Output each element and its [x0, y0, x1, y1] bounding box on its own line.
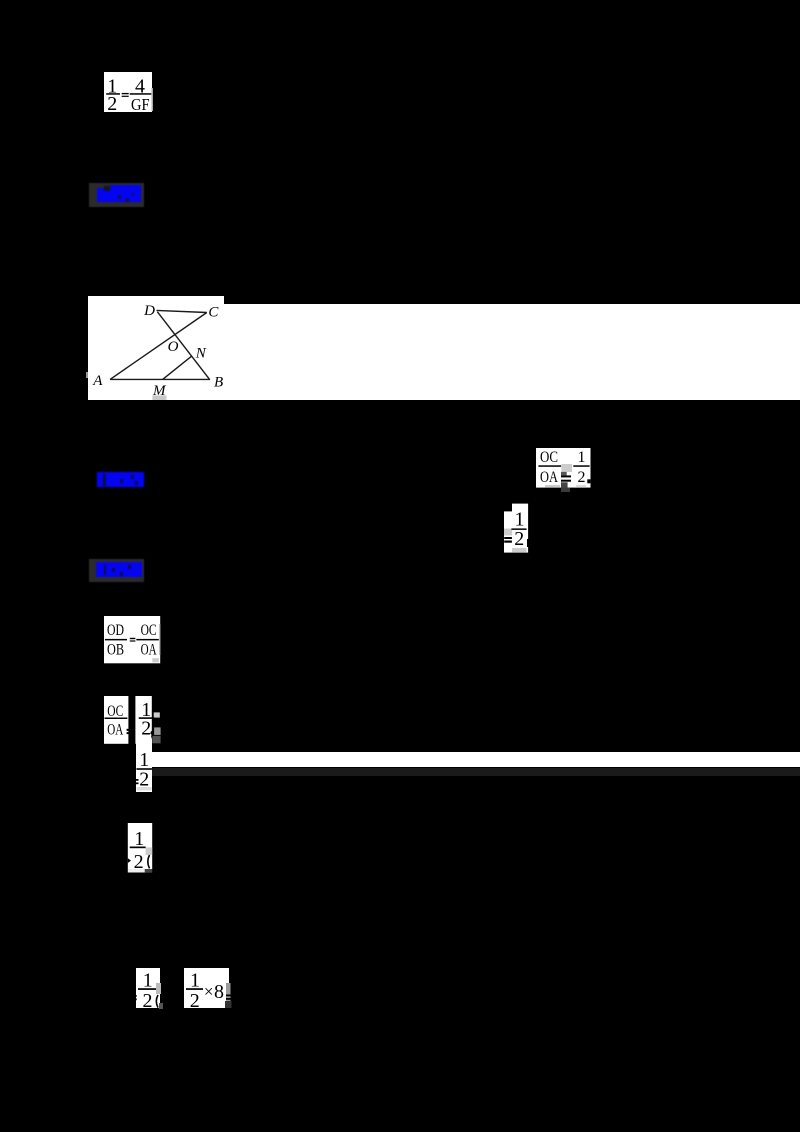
line DC: [156, 310, 206, 312]
svg-text:2: 2: [107, 93, 117, 112]
formula F5: OC/OA = 1/2,: [104, 696, 162, 744]
gray smudge under M: [152, 395, 166, 400]
formula F4: OD/OB = OC/OA: [104, 616, 161, 664]
formula F2: OC/OA = 1/2: [536, 448, 591, 492]
svg-text:2: 2: [143, 990, 153, 1010]
svg-text:N: N: [194, 345, 206, 361]
svg-text:OD: OD: [107, 622, 124, 639]
line MN: [162, 356, 191, 380]
svg-text:O: O: [167, 339, 178, 355]
svg-text:C: C: [208, 304, 219, 320]
white band to the right of figure: [224, 304, 800, 400]
svg-text:OC: OC: [540, 449, 558, 466]
svg-text:A: A: [92, 373, 103, 389]
formula F3: = 1/2: [504, 503, 532, 553]
label L3 (blue highlighted): [89, 559, 144, 582]
svg-text:2: 2: [578, 469, 586, 486]
geometry figure drawing: [88, 296, 225, 401]
formula F9: 1/2 x 8 =: [184, 966, 233, 1009]
svg-text:B: B: [214, 374, 223, 390]
svg-text:8: 8: [214, 981, 224, 1003]
svg-text:OC: OC: [140, 622, 156, 639]
svg-text:OA: OA: [107, 721, 123, 738]
line DB: [157, 311, 209, 378]
line AB: [110, 378, 210, 380]
label L2 (blue): [97, 472, 144, 487]
svg-text:4: 4: [135, 75, 145, 97]
svg-text:OA: OA: [540, 469, 558, 486]
svg-text:×: ×: [204, 982, 214, 1001]
svg-text:GF: GF: [131, 95, 150, 112]
label L1 (blue highlighted): [89, 183, 144, 207]
svg-text:1: 1: [578, 449, 586, 466]
formula F6: fraction 1/2 with wide band: [136, 739, 153, 792]
geometry figure white box: [88, 296, 224, 401]
formula F7: 1/2(: [124, 823, 156, 873]
line AC: [110, 312, 207, 379]
formula F8: = 1/2(: [131, 968, 163, 1010]
svg-text:2: 2: [134, 851, 144, 873]
formula F1: 1/2 = 4/GF: [104, 72, 153, 112]
tiny white sliver left of figure: [86, 372, 88, 378]
svg-text:2: 2: [190, 990, 200, 1009]
svg-text:1: 1: [515, 509, 525, 531]
svg-text:2: 2: [514, 528, 524, 550]
svg-text:OA: OA: [140, 641, 156, 658]
svg-text:D: D: [143, 303, 155, 319]
svg-text:2: 2: [141, 717, 151, 739]
svg-text:OB: OB: [107, 641, 124, 658]
